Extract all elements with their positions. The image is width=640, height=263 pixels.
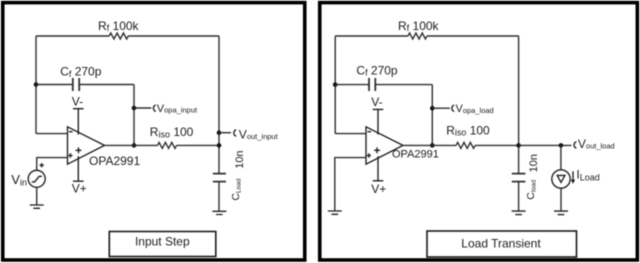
wire: Vin to ground [36, 187, 38, 205]
pin label V- (right op-amp) [371, 95, 382, 109]
pin label V- (left op-amp) [72, 94, 83, 108]
capacitor Cf (left panel) [73, 78, 79, 91]
svg-text:Load Transient: Load Transient [461, 236, 541, 250]
net label Vopa_input [157, 103, 198, 115]
svg-text:V+: V+ [371, 182, 386, 196]
node: Cf branch junction (right panel) [333, 82, 338, 87]
op-amp U1 inverting input minus marker [69, 131, 73, 133]
node: Riso-Cload output junction (left panel) [217, 143, 222, 148]
net label Vout_load [578, 137, 615, 151]
source Vin step waveform glyph [32, 176, 42, 182]
wire: Vopa_input probe stub [134, 107, 151, 109]
node: Vout_input tap junction [217, 130, 222, 135]
value label Cload 10n (right panel, rotated) [525, 154, 540, 200]
wire: non-inverting input from Vin [37, 158, 68, 171]
node: Riso-Cload output junction (right panel) [516, 143, 521, 148]
pin label V+ (left op-amp) [72, 181, 87, 195]
value label Cf 270p (right panel) [356, 63, 398, 77]
probe marker Vout_load [574, 142, 576, 148]
pin V- supply (right op-amp) [373, 109, 384, 134]
svg-text:Cf 270p: Cf 270p [60, 65, 102, 79]
svg-text:Cf 270p: Cf 270p [356, 63, 398, 77]
svg-text:10n: 10n [528, 154, 540, 172]
value label Cf 270p (left panel) [60, 65, 102, 79]
svg-text:CLoad: CLoad [230, 178, 242, 200]
op-amp U2 positive supply plus marker [374, 147, 380, 153]
svg-text:Rf 100k: Rf 100k [398, 19, 440, 33]
wire: op-amp output run through Riso (right panel) [403, 144, 519, 146]
svg-text:Vin: Vin [11, 172, 27, 188]
resistor Rf (right panel) [408, 33, 427, 39]
svg-text:Riso 100: Riso 100 [446, 123, 490, 137]
wire: output run to Vout_load probe [519, 144, 572, 146]
source Iload circle [552, 170, 570, 188]
wire: top feedback run (right panel) [335, 35, 518, 37]
wire: inverting input (right panel) [335, 133, 366, 135]
ground (below Cload, left panel) [212, 211, 226, 214]
title box Load Transient [427, 231, 577, 257]
svg-text:Rf 100k: Rf 100k [98, 19, 140, 33]
node: Vopa_load tap junction [430, 106, 435, 111]
source Vin polarity plus sign [40, 163, 44, 167]
wire: Cf right vertical down to output (right panel) [431, 85, 433, 146]
ground (op-amp non-inverting input, right panel) [328, 211, 342, 214]
svg-text:10n: 10n [234, 150, 246, 168]
source Vin circle [28, 170, 45, 187]
resistor Riso (right panel) [456, 142, 475, 148]
pin V+ supply (left op-amp) [73, 156, 84, 181]
wire: op-amp output run through Riso (left panel) [105, 144, 220, 146]
part label OPA2991 (left panel) [89, 154, 140, 168]
svg-text:V-: V- [371, 95, 382, 109]
resistor Rf (left panel) [109, 33, 128, 39]
wire: Iload branch vertical [560, 145, 562, 169]
source Iload direction arrow [571, 171, 575, 184]
capacitor Cload (left panel) [213, 174, 226, 182]
svg-text:Riso 100: Riso 100 [150, 125, 194, 139]
wire: Vout_input probe stub [219, 132, 231, 134]
ground (below Vin) [30, 205, 44, 208]
title text Load Transient [461, 236, 541, 250]
value label Rf 100k (left panel) [98, 19, 140, 33]
wire: Cf branch horizontal (left panel) [36, 84, 134, 86]
wire: Iload to ground [560, 188, 562, 211]
svg-text:V+: V+ [72, 181, 87, 195]
wire: output right vertical from feedback to Cload (left panel) [218, 36, 220, 173]
ground (below Cload, right panel) [512, 211, 526, 215]
resistor Riso (left panel) [158, 142, 177, 148]
svg-text:Vopa_input: Vopa_input [157, 103, 198, 115]
wire: feedback right vertical down to Cload (right panel) [518, 36, 520, 173]
panel frame: Input Step schematic [3, 3, 305, 260]
svg-text:OPA2991: OPA2991 [89, 154, 140, 168]
source label Vin [11, 172, 27, 188]
wire: non-inverting input to ground (right panel) [335, 158, 366, 211]
probe marker Vopa_input [153, 105, 155, 111]
pin label V+ (right op-amp) [371, 182, 386, 196]
node: Cf-to-output junction (left panel) [132, 143, 137, 148]
source Iload internal arrow glyph [557, 175, 565, 182]
svg-text:ILoad: ILoad [576, 168, 599, 183]
wire: Cf branch horizontal (right panel) [335, 84, 432, 86]
value label Cload 10n (left panel, rotated) [230, 150, 246, 200]
node: Cf-to-output junction (right panel) [430, 143, 435, 148]
net label Vout_input [239, 127, 279, 141]
wire: Cf right vertical down to output (left panel) [133, 85, 135, 146]
capacitor Cload (right panel) [512, 174, 526, 182]
value label Rf 100k (right panel) [398, 19, 440, 33]
svg-text:V-: V- [72, 94, 83, 108]
ground (below Iload) [554, 211, 568, 215]
svg-text:Vout_load: Vout_load [578, 137, 615, 151]
capacitor Cf (right panel) [369, 78, 375, 91]
svg-text:Cload: Cload [525, 179, 537, 199]
wire: Cload to ground (right panel) [518, 182, 520, 212]
op-amp U1 non-inverting input plus marker [68, 153, 72, 157]
title text Input Step [135, 235, 190, 249]
wire: Cload to ground (left panel) [218, 182, 220, 212]
wire: left feedback vertical (right panel) [334, 36, 336, 134]
op-amp U1 body (left panel) [68, 127, 105, 164]
wire: top feedback run (left panel) [36, 35, 219, 37]
value label Riso 100 (left panel) [150, 125, 194, 139]
svg-text:Vopa_load: Vopa_load [456, 103, 494, 115]
wire: left feedback vertical (left panel) [35, 36, 37, 134]
op-amp U2 inverting input minus marker [368, 131, 372, 133]
panel frame: Load Transient schematic [320, 3, 638, 260]
node: Vopa_input tap junction [132, 106, 137, 111]
probe marker Vout_input [234, 130, 236, 136]
node: Iload tap junction [559, 143, 564, 148]
pin V+ supply (right op-amp) [373, 156, 384, 181]
net label Vopa_load [456, 103, 494, 115]
wire: Vopa_load probe stub [432, 107, 450, 109]
wire: inverting input (left panel) [36, 133, 68, 135]
part label OPA2991 (right panel) [392, 149, 439, 161]
op-amp U1 positive supply plus marker [76, 147, 82, 153]
title box Input Step [109, 232, 216, 257]
op-amp U2 non-inverting input plus marker [367, 153, 371, 157]
svg-text:OPA2991: OPA2991 [392, 149, 439, 161]
svg-text:Vout_input: Vout_input [239, 127, 279, 141]
svg-text:Input Step: Input Step [135, 235, 190, 249]
value label Riso 100 (right panel) [446, 123, 490, 137]
node: Cf branch junction (left panel) [34, 82, 39, 87]
source label Iload [576, 168, 599, 183]
pin V- supply (left op-amp) [73, 109, 84, 135]
probe marker Vopa_load [452, 105, 454, 111]
op-amp U2 body (right panel) [366, 127, 403, 164]
